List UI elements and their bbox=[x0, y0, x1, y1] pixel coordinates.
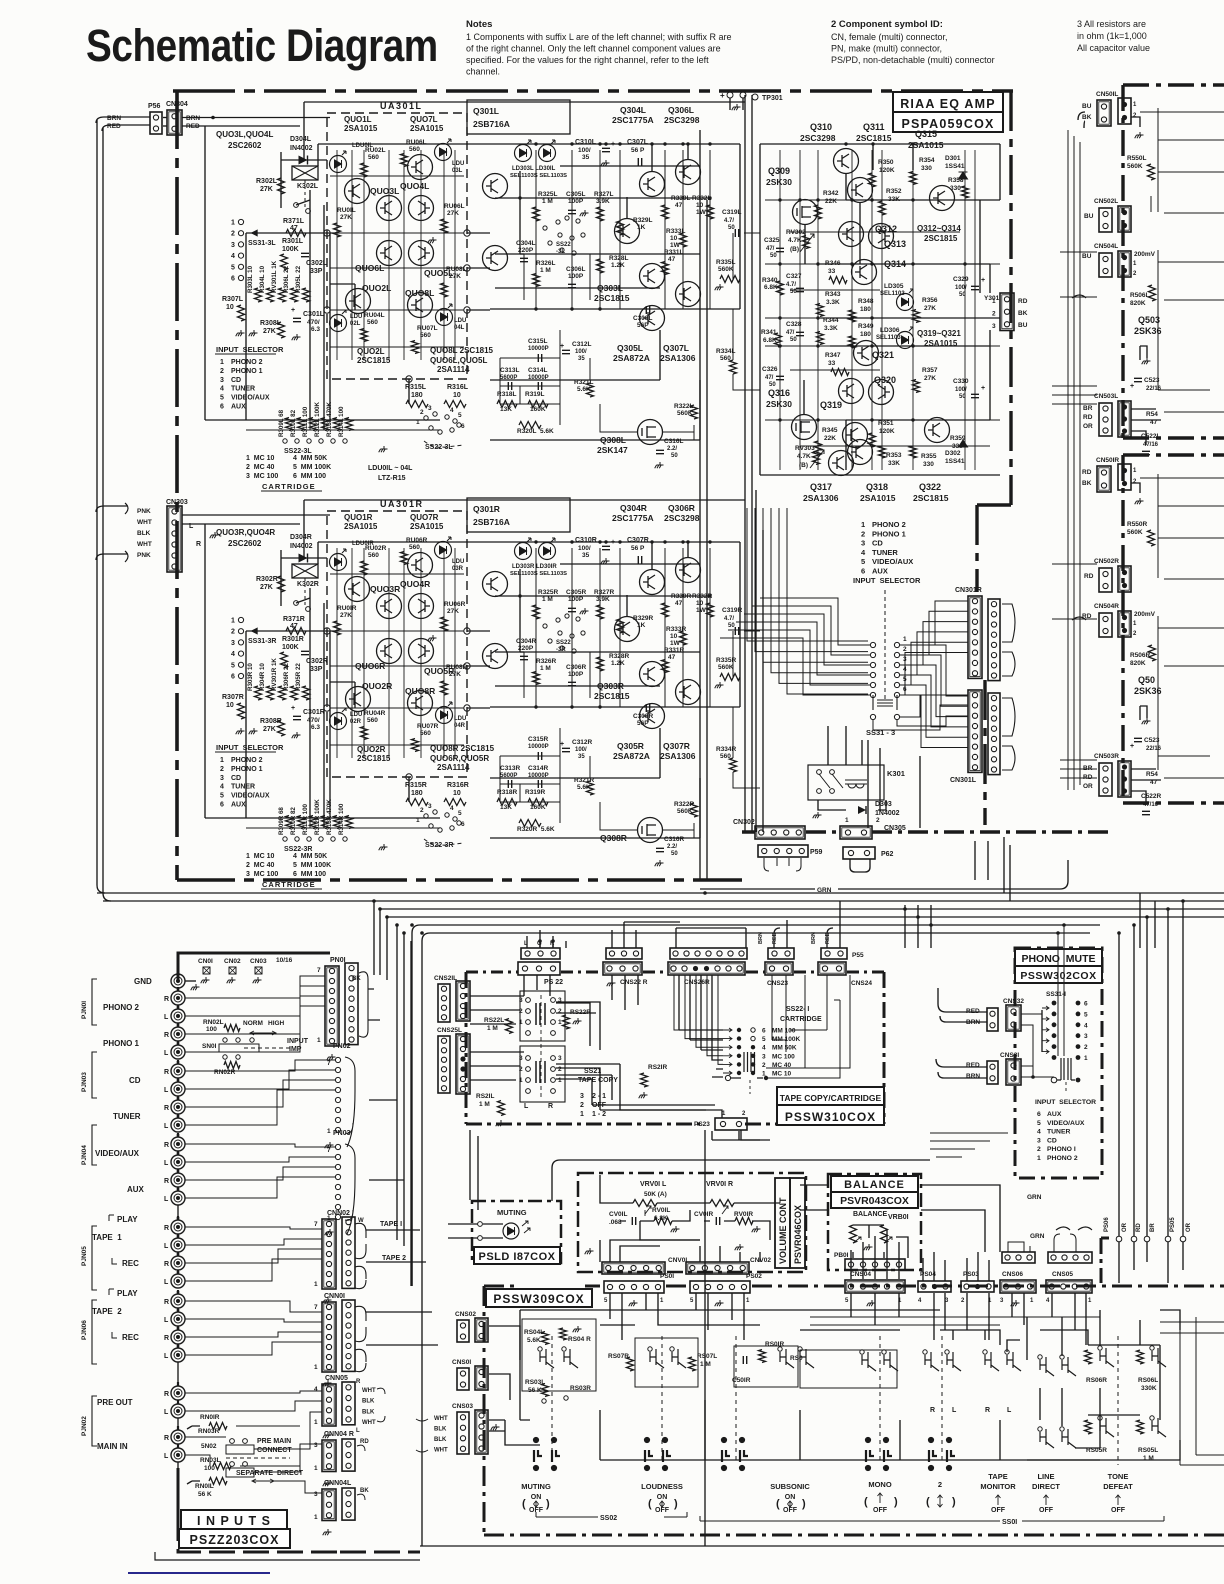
svg-text:RU06L: RU06L bbox=[444, 203, 465, 210]
svg-text:C304R: C304R bbox=[516, 638, 537, 645]
svg-text:RN03R: RN03R bbox=[198, 1428, 220, 1435]
connector bbox=[988, 693, 1000, 775]
svg-text:1K: 1K bbox=[637, 622, 646, 629]
svg-text:2: 2 bbox=[903, 646, 907, 653]
photocoupler LDU04 bbox=[436, 707, 453, 724]
svg-text:LD305: LD305 bbox=[884, 283, 904, 290]
label box I N P U T S bbox=[181, 1510, 287, 1529]
svg-text:CN503R: CN503R bbox=[1094, 753, 1119, 760]
svg-text:RN0IR: RN0IR bbox=[200, 1414, 220, 1421]
wire bbox=[519, 569, 521, 652]
svg-text:PS0I: PS0I bbox=[660, 1273, 674, 1280]
svg-text:RS2IR: RS2IR bbox=[648, 1064, 667, 1071]
svg-text:1: 1 bbox=[317, 1037, 321, 1044]
svg-text:OFF: OFF bbox=[783, 1507, 798, 1514]
svg-text:1K: 1K bbox=[637, 224, 646, 231]
photocoupler LDU01L bbox=[330, 156, 347, 173]
VOLUME board border bbox=[578, 1173, 806, 1272]
svg-text:560: 560 bbox=[420, 730, 431, 737]
transistor Q306L bbox=[676, 159, 701, 184]
MUTING board border bbox=[472, 1201, 561, 1263]
resistor R506L bbox=[1149, 285, 1156, 301]
jack TAPE2PLAY R bbox=[171, 1294, 185, 1308]
svg-text:RU06R: RU06R bbox=[406, 537, 428, 544]
transistor QUO6 bbox=[377, 639, 402, 664]
resistor R332 bbox=[707, 205, 714, 219]
svg-text:CN50IR: CN50IR bbox=[1096, 457, 1119, 464]
SS02 bracket bbox=[536, 1512, 687, 1517]
svg-text:R342: R342 bbox=[823, 190, 839, 197]
jack TAPE1PLAY R bbox=[171, 1220, 185, 1234]
svg-text:R312R 100K: R312R 100K bbox=[314, 799, 321, 835]
middle long verticals bbox=[700, 95, 752, 880]
switch wafer contacts bbox=[722, 1438, 748, 1470]
svg-text:100P: 100P bbox=[568, 671, 584, 678]
svg-text:2: 2 bbox=[938, 1480, 942, 1489]
svg-text:CARTRIDGE: CARTRIDGE bbox=[262, 482, 316, 491]
ground bbox=[1142, 358, 1151, 364]
svg-text:C314L: C314L bbox=[528, 367, 548, 374]
svg-text:5 MM 100K: 5 MM 100K bbox=[293, 862, 331, 869]
svg-text:R302R: R302R bbox=[256, 576, 278, 583]
connector bbox=[1099, 568, 1112, 592]
switch contact bbox=[294, 203, 299, 208]
svg-text:6: 6 bbox=[461, 821, 465, 828]
wire rail drop to diode bbox=[303, 102, 305, 160]
wire bbox=[354, 284, 356, 310]
svg-text:2SA1015: 2SA1015 bbox=[410, 124, 444, 133]
svg-text:GRN: GRN bbox=[1027, 1194, 1042, 1201]
transistor QUO2 bbox=[346, 687, 371, 712]
svg-text:R319L: R319L bbox=[525, 391, 545, 398]
svg-text:R301R: R301R bbox=[282, 636, 304, 643]
line direct mesh bbox=[1027, 1317, 1100, 1460]
wire feedback rail bbox=[490, 379, 660, 381]
q3 fet wires bbox=[804, 173, 860, 415]
svg-text:RU0IR: RU0IR bbox=[337, 605, 357, 612]
svg-text:1: 1 bbox=[1084, 1055, 1088, 1062]
SS22-1 arrows bbox=[723, 1028, 732, 1075]
svg-text:PSVR043COX: PSVR043COX bbox=[840, 1195, 909, 1207]
resistor RU08 bbox=[441, 283, 448, 297]
svg-text:RS22L: RS22L bbox=[484, 1017, 504, 1024]
svg-text:R319R: R319R bbox=[525, 789, 546, 796]
resistor RS22L bbox=[506, 1019, 513, 1034]
svg-text:R550L: R550L bbox=[1127, 155, 1147, 162]
plug risers PS22 bbox=[527, 930, 553, 948]
node on UA301 box bbox=[406, 376, 412, 382]
svg-text:1: 1 bbox=[558, 1077, 562, 1084]
wire bus vertical bbox=[309, 190, 311, 420]
svg-text:1: 1 bbox=[903, 636, 907, 643]
wires around Q308 bbox=[600, 802, 694, 838]
svg-text:CN0I: CN0I bbox=[198, 958, 213, 965]
resistor R335 bbox=[720, 674, 740, 681]
connector bbox=[968, 690, 982, 772]
switch contact bbox=[884, 1352, 898, 1371]
svg-text:R: R bbox=[196, 541, 201, 548]
wire right rail bbox=[999, 144, 1001, 200]
svg-text:CNN04 R: CNN04 R bbox=[324, 1431, 354, 1438]
svg-text:CNN05: CNN05 bbox=[325, 1375, 348, 1382]
SS21 upper outline bbox=[520, 991, 565, 1041]
svg-text:SEPARATE: SEPARATE bbox=[236, 1470, 273, 1477]
svg-text:27K: 27K bbox=[447, 210, 459, 217]
svg-text:(: ( bbox=[522, 1498, 526, 1510]
svg-text:R550R: R550R bbox=[1127, 521, 1148, 528]
capacitor C501R bbox=[743, 1356, 746, 1364]
jack CD R bbox=[171, 1064, 185, 1078]
capacitor C319R bbox=[735, 627, 738, 635]
right column rail stubs L bbox=[1140, 112, 1224, 412]
resistor RS04L bbox=[542, 1332, 549, 1345]
svg-text:GND: GND bbox=[134, 977, 152, 986]
svg-text:TUNER: TUNER bbox=[113, 1112, 141, 1121]
svg-text:6: 6 bbox=[231, 674, 235, 681]
svg-text:1 M: 1 M bbox=[487, 1025, 498, 1032]
wire stub bbox=[187, 1481, 200, 1484]
connector bbox=[322, 1384, 336, 1426]
svg-text:IN4002: IN4002 bbox=[290, 543, 313, 550]
node on UA301 box bbox=[464, 663, 470, 669]
svg-text:100/: 100/ bbox=[578, 147, 591, 154]
wire selector bank bottom bbox=[246, 818, 440, 828]
svg-text:MONO: MONO bbox=[868, 1480, 891, 1489]
connector bbox=[987, 1008, 998, 1031]
jack L L bbox=[171, 1009, 185, 1023]
transistor Q307R bbox=[676, 680, 701, 705]
wires CN503 right bbox=[1131, 409, 1161, 445]
resistor R307R bbox=[238, 703, 245, 719]
SS21 dashed axis bbox=[540, 995, 542, 1100]
ground bbox=[236, 330, 245, 336]
ground bbox=[607, 980, 616, 986]
svg-text:470/: 470/ bbox=[307, 717, 320, 724]
svg-text:CNN0I: CNN0I bbox=[324, 1293, 345, 1300]
svg-text:2SA1015: 2SA1015 bbox=[410, 522, 444, 531]
UA301 interior verticals bbox=[337, 150, 455, 360]
svg-text:4: 4 bbox=[231, 651, 235, 658]
row drops to switch rails bbox=[851, 1293, 1086, 1345]
wire CN501 to ground bbox=[1131, 117, 1140, 127]
svg-text:3: 3 bbox=[314, 1491, 318, 1498]
svg-text:C319L: C319L bbox=[722, 209, 742, 216]
resistor R326 bbox=[533, 672, 540, 685]
resistor RU06 bbox=[441, 219, 448, 233]
resistor R304L bbox=[267, 288, 274, 302]
svg-text:1.2K: 1.2K bbox=[611, 660, 625, 667]
label box BALANCE bbox=[831, 1176, 918, 1192]
svg-text:33: 33 bbox=[828, 360, 836, 367]
SS31-1 wiper contacts bbox=[1051, 1077, 1057, 1083]
jack chain wire bbox=[177, 1234, 179, 1238]
ground bbox=[629, 1300, 638, 1306]
wire bbox=[845, 420, 847, 470]
switch SS22 digits bbox=[416, 803, 465, 828]
resistor RN03L bbox=[213, 1463, 231, 1470]
svg-text:RD: RD bbox=[1083, 414, 1093, 421]
svg-text:330K: 330K bbox=[1141, 1385, 1157, 1392]
svg-text:Q315: Q315 bbox=[915, 129, 937, 139]
svg-text:PHONO 2: PHONO 2 bbox=[231, 757, 263, 764]
SS22-1 right nest bbox=[766, 975, 850, 1078]
jack chain wire bbox=[177, 987, 179, 991]
resistor bbox=[633, 1200, 657, 1207]
svg-text:(B): (B) bbox=[790, 246, 799, 253]
svg-text:RED: RED bbox=[825, 932, 831, 944]
switch axis dashed bbox=[661, 1336, 663, 1460]
svg-text:10: 10 bbox=[670, 633, 678, 640]
selector lower routing bbox=[873, 695, 968, 730]
svg-text:7: 7 bbox=[327, 1147, 331, 1154]
note 1 bbox=[466, 19, 731, 77]
svg-text:3: 3 bbox=[220, 377, 224, 384]
capacitor C307L bbox=[638, 158, 641, 166]
svg-text:CN305: CN305 bbox=[884, 825, 906, 832]
switch SS22 mid contacts bbox=[543, 614, 585, 653]
connector bbox=[518, 962, 560, 975]
ground bbox=[292, 732, 301, 738]
resistor RU06 bbox=[441, 617, 448, 631]
switch SN01 lower contacts bbox=[223, 1055, 227, 1059]
connector PN03 contacts bbox=[335, 1144, 340, 1219]
svg-text:ON: ON bbox=[785, 1494, 796, 1501]
svg-text:CNN04L: CNN04L bbox=[324, 1480, 352, 1487]
svg-text:I N P U T S: I N P U T S bbox=[197, 1514, 271, 1528]
connector bbox=[457, 1412, 469, 1454]
wire bbox=[912, 144, 914, 170]
svg-text:120K: 120K bbox=[879, 167, 895, 174]
svg-text:160K: 160K bbox=[530, 804, 546, 811]
wire P56 to CN304 bbox=[163, 117, 167, 119]
svg-text:1: 1 bbox=[558, 1019, 562, 1026]
transistor input 2 bbox=[483, 246, 508, 271]
svg-text:BRN: BRN bbox=[758, 932, 764, 944]
svg-text:4: 4 bbox=[762, 1045, 766, 1052]
capacitor C316 bbox=[656, 450, 664, 453]
ground GND jack bbox=[191, 984, 200, 990]
svg-text:R354: R354 bbox=[919, 157, 935, 164]
connector bbox=[1118, 464, 1131, 490]
capacitor C315 bbox=[538, 354, 541, 362]
svg-text:MUTING: MUTING bbox=[497, 1208, 527, 1217]
svg-text:2SC3298: 2SC3298 bbox=[664, 115, 700, 125]
svg-text:C310R: C310R bbox=[575, 537, 597, 544]
svg-text:PSVR046COX: PSVR046COX bbox=[793, 1205, 803, 1264]
switch contact bbox=[1152, 1348, 1166, 1367]
switch SS31-3 matrix bbox=[870, 636, 907, 698]
ground bbox=[201, 977, 210, 983]
relay K302R box bbox=[292, 564, 318, 578]
switch wafer contacts bbox=[929, 1438, 955, 1470]
svg-text:SS22: SS22 bbox=[556, 242, 571, 248]
transistor pair bbox=[409, 196, 434, 221]
resistor R303L bbox=[255, 288, 262, 302]
svg-text:R: R bbox=[164, 1335, 169, 1342]
svg-text:R311L 100: R311L 100 bbox=[302, 406, 309, 437]
capacitor C308 bbox=[646, 306, 649, 314]
wires CNN04 bbox=[236, 1426, 322, 1493]
svg-text:2SK36: 2SK36 bbox=[1134, 326, 1162, 336]
SS31-1 wiper wire bbox=[1057, 1079, 1075, 1081]
ground bbox=[496, 1120, 505, 1126]
PS06 border bracket bbox=[1101, 1238, 1109, 1283]
resistor R322 bbox=[691, 405, 698, 419]
svg-text:GRN: GRN bbox=[1030, 1233, 1045, 1240]
svg-text:7: 7 bbox=[327, 1060, 331, 1067]
capacitor C326 bbox=[776, 376, 784, 379]
svg-text:CNS23: CNS23 bbox=[767, 980, 788, 987]
svg-text:47/: 47/ bbox=[766, 246, 775, 252]
svg-text:RV301L 1K: RV301L 1K bbox=[271, 260, 278, 293]
node on UA301 box bbox=[324, 230, 330, 236]
right column signal rail L bbox=[1151, 108, 1158, 390]
wire rail bbox=[495, 197, 710, 199]
svg-text:SN0I: SN0I bbox=[202, 1043, 217, 1050]
transistor Q321 bbox=[854, 341, 879, 366]
resistor RS01R bbox=[759, 1350, 766, 1363]
svg-text:4 MM 50K: 4 MM 50K bbox=[293, 455, 327, 462]
svg-text:6: 6 bbox=[762, 1028, 766, 1035]
svg-text:2SC1815: 2SC1815 bbox=[924, 234, 958, 243]
SS22-1 dot matrix bbox=[737, 1028, 801, 1078]
svg-text:QUO2L: QUO2L bbox=[357, 347, 385, 356]
resistor R319 bbox=[528, 401, 548, 408]
svg-text:2SC1815: 2SC1815 bbox=[357, 356, 391, 365]
switch contact bbox=[1062, 1357, 1076, 1376]
verticals CN301 to CNS2x bbox=[975, 841, 988, 880]
svg-text:RS07L: RS07L bbox=[697, 1353, 717, 1360]
svg-text:2.2/: 2.2/ bbox=[667, 446, 677, 452]
svg-text:LTZ-R15: LTZ-R15 bbox=[378, 475, 406, 482]
svg-text:OR: OR bbox=[1083, 783, 1093, 790]
switch contact bbox=[1007, 1352, 1021, 1371]
wire right rail bbox=[739, 542, 741, 707]
svg-text:6.8K: 6.8K bbox=[764, 284, 778, 291]
ground bbox=[813, 812, 822, 818]
jack L L bbox=[171, 1191, 185, 1205]
capacitor C327 bbox=[796, 288, 804, 291]
bottom right edge wires bbox=[1160, 1312, 1224, 1465]
resistor RS03L bbox=[542, 1384, 549, 1397]
svg-text:TONE: TONE bbox=[1108, 1472, 1129, 1481]
wire bbox=[699, 778, 701, 838]
svg-text:R349: R349 bbox=[858, 323, 874, 330]
svg-text:R: R bbox=[930, 1407, 935, 1414]
resistor R550R bbox=[1148, 530, 1155, 546]
ground bbox=[236, 728, 245, 734]
capacitor C328 bbox=[796, 332, 804, 335]
svg-text:PNK: PNK bbox=[137, 508, 151, 515]
wires volume to balance bbox=[800, 1185, 1000, 1252]
ground bbox=[210, 532, 219, 538]
wire CN501 to ground bbox=[1131, 483, 1140, 493]
svg-text:R314L 100: R314L 100 bbox=[338, 406, 345, 437]
wire relay to diode bbox=[818, 800, 886, 810]
svg-text:R345: R345 bbox=[822, 427, 838, 434]
svg-text:100: 100 bbox=[206, 1026, 217, 1033]
resistor bbox=[803, 236, 810, 249]
svg-text:R359: R359 bbox=[950, 435, 966, 442]
svg-text:VIDEO/AUX: VIDEO/AUX bbox=[231, 793, 270, 800]
svg-text:2SC3298: 2SC3298 bbox=[664, 513, 700, 523]
svg-text:2: 2 bbox=[558, 1008, 562, 1015]
wire box to mid bbox=[467, 665, 490, 667]
svg-text:1.2K: 1.2K bbox=[611, 262, 625, 269]
connector bbox=[1097, 466, 1111, 492]
transistor bbox=[640, 662, 665, 687]
svg-text:C312L: C312L bbox=[572, 341, 592, 348]
switch contact bbox=[1100, 1348, 1114, 1367]
bus into tape board bbox=[412, 925, 420, 1286]
svg-text:K302R: K302R bbox=[297, 581, 319, 588]
wire top rail bbox=[318, 143, 467, 145]
connector bbox=[457, 1320, 469, 1342]
svg-text:1SS41: 1SS41 bbox=[945, 458, 965, 465]
switch SS21 bars upper bbox=[536, 1003, 545, 1025]
RIAA EQ AMP board border top bbox=[173, 89, 1013, 93]
svg-text:): ) bbox=[894, 1496, 898, 1508]
svg-text:PN0I: PN0I bbox=[330, 957, 346, 964]
svg-text:BU: BU bbox=[1018, 322, 1028, 329]
switch contact pair bbox=[800, 1349, 814, 1368]
connector bbox=[1097, 100, 1111, 126]
balance wires bbox=[853, 1225, 908, 1258]
svg-text:2SC2602: 2SC2602 bbox=[228, 539, 262, 548]
capacitor C302R bbox=[301, 651, 309, 654]
relay K301 coil bbox=[845, 780, 867, 788]
UA301 interior rails bbox=[330, 542, 464, 745]
svg-text:QUO2R: QUO2R bbox=[362, 681, 392, 691]
svg-text:SS02: SS02 bbox=[600, 1515, 617, 1522]
label box PSSW309COX bbox=[486, 1289, 592, 1307]
ground bbox=[379, 844, 388, 850]
wires band mid bbox=[412, 1160, 600, 1286]
wire rail bbox=[560, 165, 700, 167]
svg-text:R327R: R327R bbox=[594, 589, 615, 596]
svg-text:LDU: LDU bbox=[452, 161, 464, 167]
svg-text:LD306: LD306 bbox=[880, 327, 900, 334]
svg-text:4: 4 bbox=[450, 805, 454, 812]
wire rail bbox=[495, 287, 660, 289]
ground bbox=[864, 1244, 873, 1250]
svg-text:R303R 10: R303R 10 bbox=[247, 663, 254, 691]
svg-text:L: L bbox=[164, 1317, 169, 1324]
svg-text:3: 3 bbox=[558, 1055, 562, 1062]
test point TP301 bbox=[727, 92, 733, 98]
resistor RU07 bbox=[412, 341, 419, 354]
connector bbox=[1118, 251, 1131, 277]
component comb wires mid bbox=[536, 548, 710, 707]
svg-text:L: L bbox=[952, 1407, 957, 1414]
PN03 cable bbox=[345, 1144, 355, 1234]
wire bbox=[651, 144, 653, 172]
resistor R309L bbox=[286, 418, 293, 431]
plug risers CNS23 bbox=[774, 920, 787, 948]
svg-text:C307R: C307R bbox=[627, 537, 649, 544]
wire low bbox=[846, 419, 990, 421]
svg-text:Schematic Diagram: Schematic Diagram bbox=[86, 20, 438, 70]
capacitor CN03 bbox=[255, 967, 262, 974]
svg-text:CARTRIDGE: CARTRIDGE bbox=[262, 880, 316, 889]
connector bbox=[843, 847, 875, 859]
svg-text:Q311: Q311 bbox=[863, 122, 885, 132]
svg-text:120K: 120K bbox=[879, 428, 895, 435]
svg-text:R302L: R302L bbox=[256, 178, 278, 185]
svg-text:L: L bbox=[164, 1409, 169, 1416]
svg-text:CNS02: CNS02 bbox=[455, 1311, 476, 1318]
svg-text:3.3K: 3.3K bbox=[824, 325, 838, 332]
